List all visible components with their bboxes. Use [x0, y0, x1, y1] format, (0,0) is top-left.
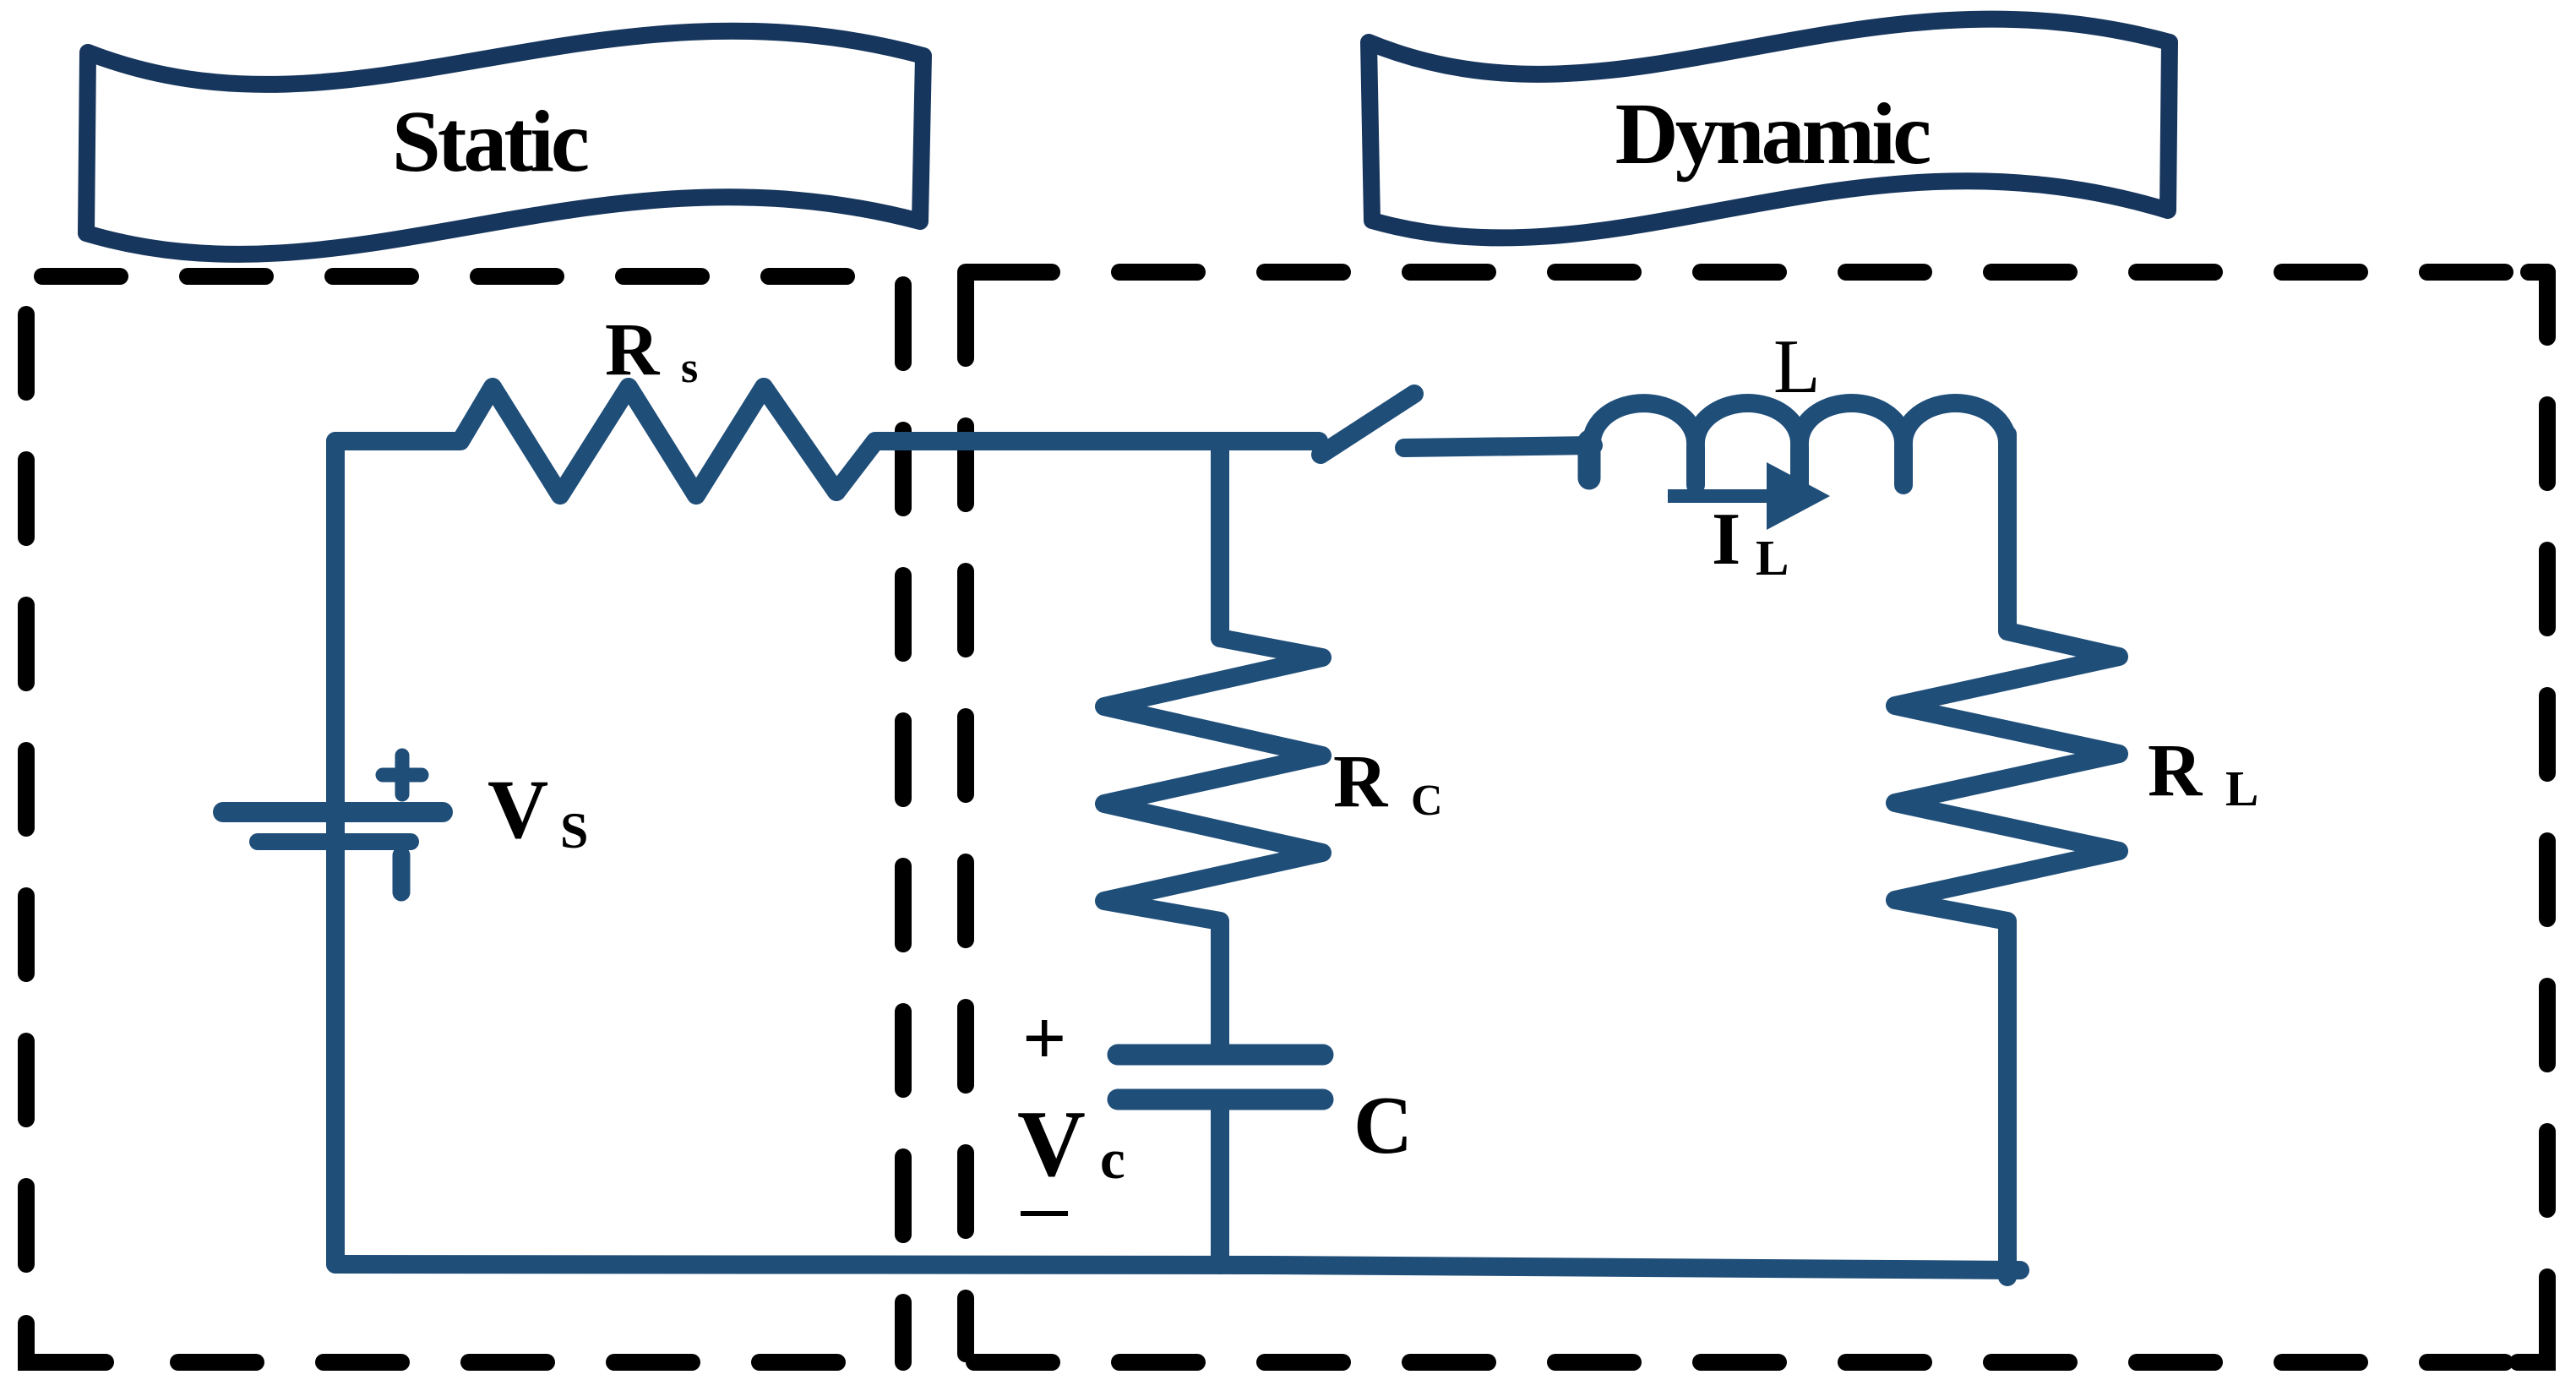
- svg-text:V: V: [1017, 1092, 1086, 1197]
- svg-text:R: R: [605, 308, 661, 391]
- svg-text:R: R: [2148, 729, 2203, 812]
- svg-text:Dynamic: Dynamic: [1615, 85, 1930, 183]
- svg-text:C: C: [1411, 777, 1443, 825]
- svg-text:V: V: [487, 762, 548, 856]
- svg-text:L: L: [1773, 324, 1821, 409]
- svg-text:s: s: [681, 344, 698, 392]
- svg-text:I: I: [1712, 499, 1740, 581]
- svg-text:L: L: [1756, 530, 1789, 586]
- svg-text:R: R: [1333, 740, 1389, 823]
- svg-text:L: L: [2225, 761, 2258, 816]
- svg-text:+: +: [1022, 995, 1066, 1081]
- svg-text:Static: Static: [392, 93, 588, 190]
- svg-text:C: C: [1353, 1080, 1413, 1170]
- svg-text:S: S: [560, 803, 588, 859]
- svg-text:c: c: [1100, 1128, 1125, 1191]
